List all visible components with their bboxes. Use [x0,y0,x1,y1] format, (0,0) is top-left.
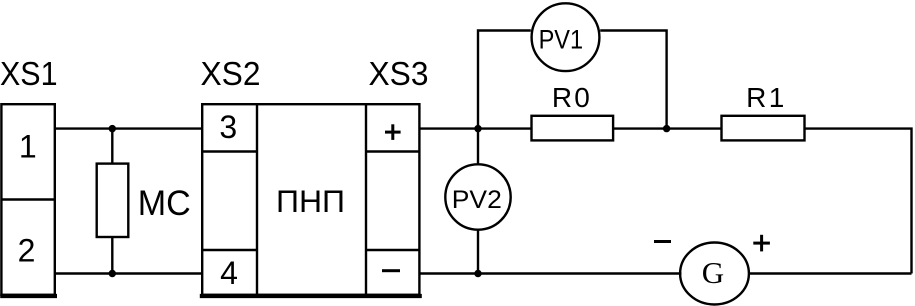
generator G circle [680,243,749,305]
svg-text:R: R [746,82,766,113]
svg-text:ПНП: ПНП [276,183,345,219]
svg-text:1: 1 [19,129,37,165]
divider PNP | XS3 [365,104,367,295]
svg-text:3: 3 [219,109,237,145]
svg-text:XS3: XS3 [369,56,429,93]
wire PV2 top lead [477,129,479,164]
wire bottom mid: XS3 minus to G [419,272,681,274]
connector XS2 / block PNP / connector XS3 outer box [200,104,422,296]
G plus sign [753,235,770,252]
resistor MC body [97,164,129,237]
svg-text:XS1: XS1 [0,56,58,93]
wire MC bottom lead [111,237,113,274]
divider XS3 cell - [366,249,419,251]
svg-text:PV2: PV2 [452,186,502,214]
wire bottom: XS1 pin2 to XS2 pin4 [56,272,202,274]
wire PV2 bottom lead [477,230,479,273]
svg-text:MC: MC [138,184,191,223]
XS3 minus terminal sign [382,269,400,272]
svg-text:XS2: XS2 [201,56,261,93]
connector XS1 box [0,104,57,296]
G minus sign [654,240,671,243]
wire PV1 right to node B [600,31,666,129]
svg-text:PV1: PV1 [539,24,584,54]
resistor R1 body [722,116,805,141]
voltmeter PV2 circle [445,164,510,229]
svg-text:0: 0 [574,82,590,113]
node: junction XS1-MC bottom [109,270,116,277]
voltmeter PV1 circle [532,3,600,71]
svg-text:4: 4 [220,255,238,291]
wire R0 right to R1 [613,127,721,129]
wire top: XS1 pin1 to XS2 pin3 [56,127,202,129]
divider XS3 cell + [366,150,419,152]
svg-text:G: G [702,255,724,290]
svg-text:2: 2 [18,233,36,269]
resistor R0 body [532,116,614,141]
divider XS2 cell 4 [202,249,257,251]
node: junction PV2 bottom [474,270,481,277]
wire PV1 left vertical [478,31,531,129]
wire MC top lead [111,129,113,164]
node B: junction PV1/R0 right [663,125,670,132]
divider XS2 | PNP [256,104,258,295]
svg-text:R: R [552,82,572,113]
wire XS3 plus to node A [419,127,531,129]
wire R1 right and down [805,129,912,274]
svg-text:1: 1 [769,82,785,113]
divider XS2 cell 3 [202,150,257,152]
node: junction XS1-MC top [109,125,116,132]
XS3 plus terminal sign [385,124,401,140]
node A: junction PV1/PV2 left [474,125,481,132]
wire bottom right: G plus to right riser [750,272,912,274]
